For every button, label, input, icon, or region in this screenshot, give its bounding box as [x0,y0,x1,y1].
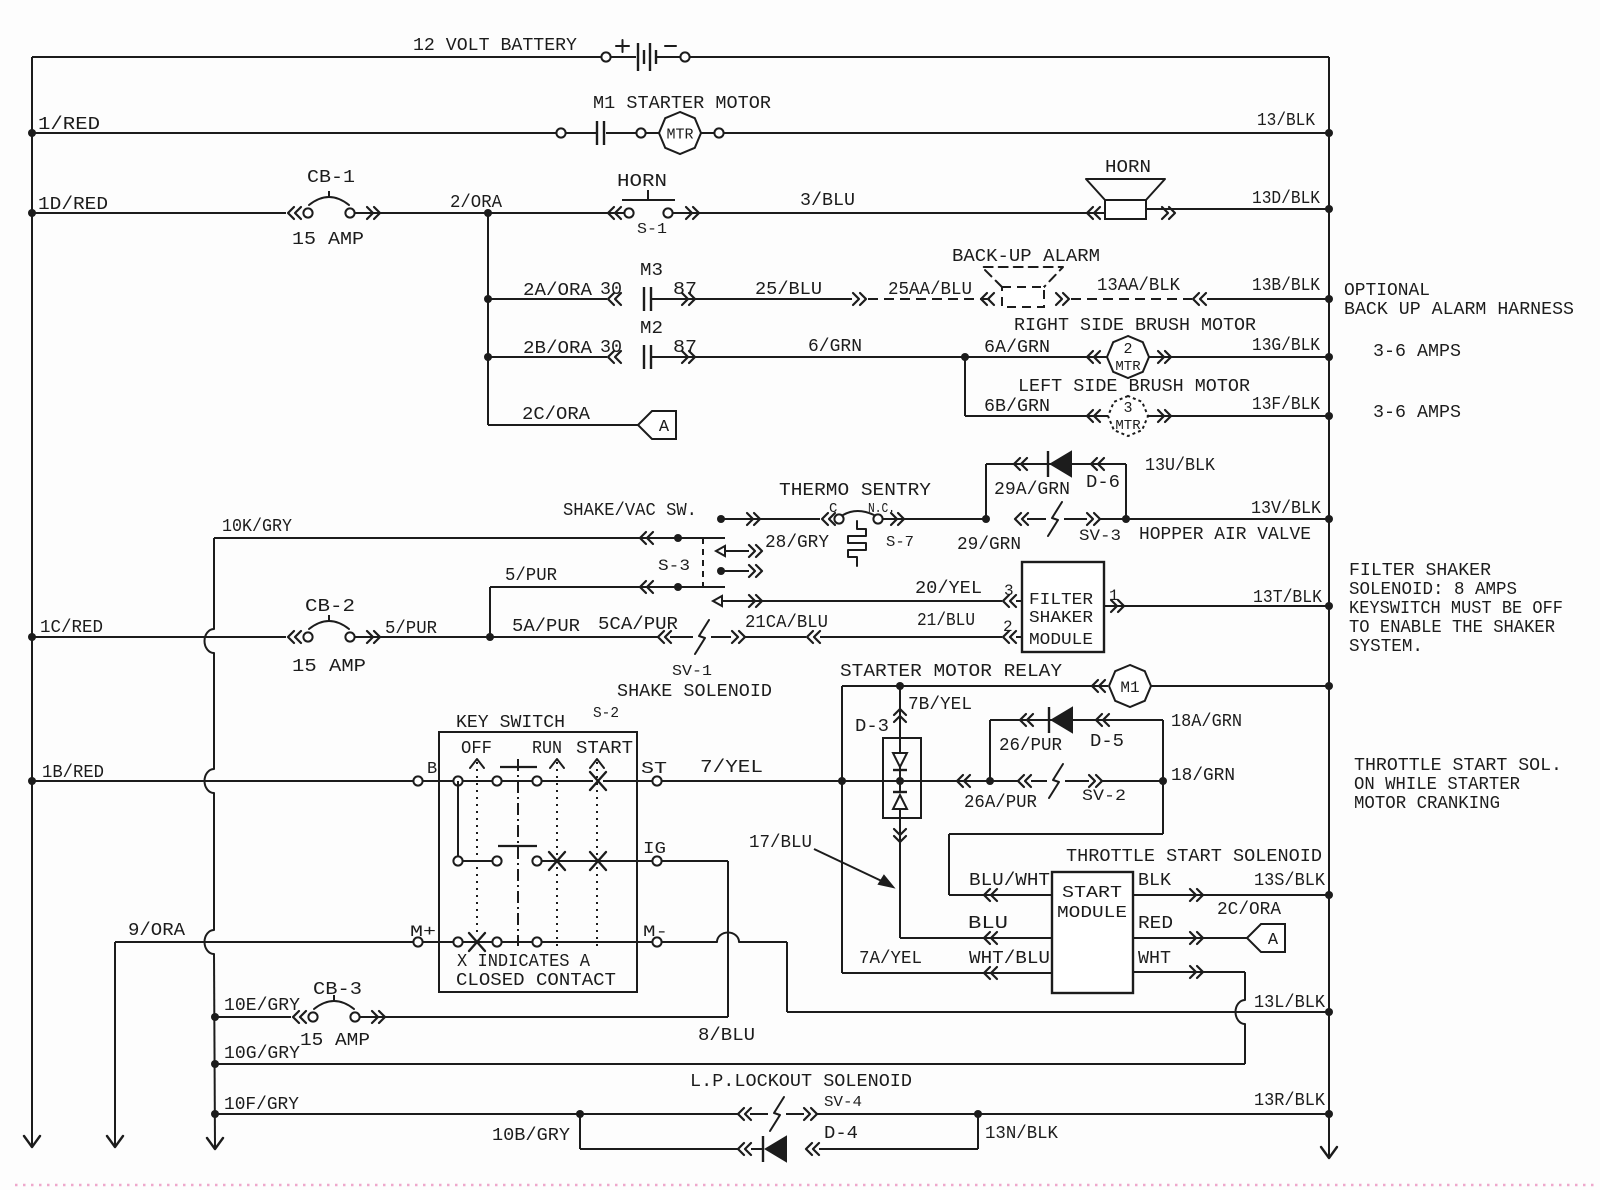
svg-text:WHT/BLU: WHT/BLU [969,949,1050,969]
svg-text:SV-1: SV-1 [672,663,712,680]
svg-text:1B/RED: 1B/RED [42,763,104,783]
top supply wire from battery [32,56,1329,58]
svg-text:D-6: D-6 [1086,473,1120,493]
label THERMO SENTRY [779,481,931,501]
wire 18/GRN to start module BLU/WHT [949,781,1163,901]
svg-text:SV-2: SV-2 [1082,787,1126,805]
svg-text:SOLENOID: 8 AMPS: SOLENOID: 8 AMPS [1349,580,1517,600]
svg-text:SV-3: SV-3 [1079,527,1121,545]
wire 2A/ORA [484,281,607,303]
wire RED to connector A [1133,900,1281,944]
wire 13T/BLK module pin 1 output [1104,587,1333,612]
svg-text:12 VOLT BATTERY: 12 VOLT BATTERY [413,36,577,56]
svg-text:MTR: MTR [1115,418,1141,434]
svg-text:M1 STARTER MOTOR: M1 STARTER MOTOR [593,94,771,114]
svg-text:2B/ORA: 2B/ORA [523,339,592,359]
wire starter motor relay coil [842,680,1108,692]
svg-text:2: 2 [1123,341,1132,358]
svg-text:10F/GRY: 10F/GRY [224,1095,299,1115]
svg-text:26A/PUR: 26A/PUR [964,793,1037,813]
label L.P.LOCKOUT SOLENOID [690,1072,912,1092]
wire 5/PUR to S-3 [490,566,725,639]
wire BLK 13S/BLK [1133,871,1333,901]
wire 13G/BLK [1149,336,1333,361]
svg-text:OFF: OFF [461,739,492,759]
hopper air valve solenoid SV-3 [1015,502,1311,545]
svg-text:13F/BLK: 13F/BLK [1252,395,1320,415]
svg-text:28/GRY: 28/GRY [765,533,829,553]
svg-text:25AA/BLU: 25AA/BLU [888,280,972,300]
back-up alarm speaker dashed [952,247,1100,307]
svg-text:10E/GRY: 10E/GRY [224,996,300,1016]
battery B1 12 volt [601,40,689,71]
shake solenoid SV-1 [617,620,772,702]
motor M3 left side brush dotted [1087,396,1171,436]
wire 1B/RED [28,763,413,785]
svg-text:13V/BLK: 13V/BLK [1251,499,1321,519]
circuit breaker CB-1 15 AMP [288,168,380,250]
svg-text:21/BLU: 21/BLU [917,611,975,631]
svg-text:THROTTLE START SOLENOID: THROTTLE START SOLENOID [1066,847,1322,867]
svg-text:M-: M- [643,923,668,941]
svg-text:SHAKE/VAC SW.: SHAKE/VAC SW. [563,501,697,521]
thermo sentry heater element [848,521,866,566]
diode D-6 bypass branch 29A/GRN [986,451,1215,523]
svg-text:RIGHT SIDE BRUSH MOTOR: RIGHT SIDE BRUSH MOTOR [1014,316,1256,336]
motor M1 starter [659,112,701,154]
left rail off-page arrow [24,1136,40,1147]
thermo sentry switch S-7 contacts C and N.C. [822,501,914,551]
label M1 STARTER MOTOR [593,94,771,114]
off-page connector A to 2C/ORA [1247,924,1285,952]
wire 28/GRY [717,513,829,553]
label THROTTLE START SOLENOID [1066,847,1322,867]
wire 10F/GRY [211,1095,584,1118]
svg-text:BLU: BLU [968,914,1008,934]
key switch S-2 enclosure [439,705,637,992]
9/ORA off-page arrow [107,1136,123,1147]
key switch OFF column dotted [470,759,484,932]
wire 1/RED [28,115,636,137]
key switch selector divider dash-dot [498,759,537,946]
svg-text:26/PUR: 26/PUR [999,736,1062,756]
svg-text:1/RED: 1/RED [38,115,100,135]
svg-text:MTR: MTR [666,126,693,143]
svg-text:OPTIONAL: OPTIONAL [1344,281,1430,301]
wire 13V/BLK [1126,499,1333,523]
wire M- to 13L/BLK [662,933,787,1013]
svg-text:29/GRN: 29/GRN [957,535,1021,555]
svg-text:ST: ST [641,760,667,779]
svg-text:13U/BLK: 13U/BLK [1145,456,1215,476]
svg-text:MOTOR CRANKING: MOTOR CRANKING [1354,794,1500,814]
svg-text:10K/GRY: 10K/GRY [222,517,292,537]
svg-text:13G/BLK: 13G/BLK [1252,336,1320,356]
filter shaker module U1 [1022,562,1104,652]
svg-text:TO ENABLE THE SHAKER: TO ENABLE THE SHAKER [1349,618,1555,638]
page separator dotted pink [15,1184,1595,1187]
svg-text:10G/GRY: 10G/GRY [224,1044,300,1064]
svg-text:1C/RED: 1C/RED [40,618,103,638]
svg-text:WHT: WHT [1138,949,1171,969]
wire to right rail [1151,682,1333,690]
svg-text:7A/YEL: 7A/YEL [859,949,922,969]
switch S-3 throw stub closed [717,565,762,577]
svg-text:C: C [829,501,837,517]
svg-text:3-6 AMPS: 3-6 AMPS [1373,342,1461,362]
wire 13D/BLK [1146,189,1333,213]
svg-text:2C/ORA: 2C/ORA [1217,900,1281,920]
svg-text:M2: M2 [640,319,663,339]
svg-text:START: START [576,739,633,759]
svg-text:BACK-UP ALARM: BACK-UP ALARM [952,247,1100,267]
wire 10E/GRY [211,996,300,1021]
motor M2 right side brush [1087,336,1171,378]
key switch position labels OFF RUN START [461,739,633,759]
starter solenoid contact [556,121,715,145]
svg-text:6A/GRN: 6A/GRN [984,338,1050,358]
svg-text:1D/RED: 1D/RED [38,195,108,215]
note 3-6 AMPS [1373,342,1461,362]
svg-text:CB-1: CB-1 [307,168,355,188]
svg-text:M1: M1 [1120,679,1139,697]
wire WHT [1133,949,1245,1064]
wire 9/ORA [115,921,413,942]
svg-text:S-2: S-2 [593,705,619,722]
svg-text:BACK UP ALARM HARNESS: BACK UP ALARM HARNESS [1344,300,1574,320]
key switch row B-ST contacts [413,760,667,790]
wire 13N/BLK [819,1114,1058,1149]
switch S-3 throw stub open [716,545,762,557]
svg-text:D-3: D-3 [855,717,889,737]
svg-text:13B/BLK: 13B/BLK [1252,276,1320,296]
wire 2/ORA [355,193,624,217]
right rail 13/BLK vertical [1328,57,1330,1156]
wire 13AA/BLK dashed [1056,276,1206,305]
wire 7B/YEL vertical [842,686,972,973]
wire 1D/RED [28,195,286,217]
svg-text:IG: IG [643,840,666,859]
svg-text:13R/BLK: 13R/BLK [1254,1091,1325,1111]
svg-text:3: 3 [1004,582,1014,600]
svg-text:S-3: S-3 [658,557,690,575]
wire 5A/PUR 5CA/PUR [490,615,678,637]
svg-text:13AA/BLK: 13AA/BLK [1097,276,1180,296]
svg-text:KEYSWITCH MUST BE OFF: KEYSWITCH MUST BE OFF [1349,599,1563,619]
svg-text:5/PUR: 5/PUR [505,566,557,586]
svg-text:3: 3 [1123,400,1132,417]
note THROTTLE START SOL. ON WHILE STARTER MOTOR CRANKING [1354,756,1562,814]
svg-text:A: A [659,418,670,437]
svg-text:START: START [1062,884,1122,903]
svg-text:ON WHILE STARTER: ON WHILE STARTER [1354,775,1520,795]
wire 2B/ORA [484,339,607,361]
svg-text:STARTER MOTOR RELAY: STARTER MOTOR RELAY [840,662,1062,682]
relay contact M3 terminals 30 87 [600,261,697,311]
off-page connector A [638,411,676,439]
wire 6/GRN [651,337,1108,361]
svg-text:S-1: S-1 [637,221,667,238]
label SHAKE/VAC SW. [563,501,697,521]
wire 10B/GRY [492,1114,738,1149]
wire 3/BLU [673,191,1104,213]
wire 5/PUR [355,619,494,641]
wire 13B/BLK [1207,276,1333,303]
svg-text:L.P.LOCKOUT SOLENOID: L.P.LOCKOUT SOLENOID [690,1072,912,1092]
switch S-3 gang dashed link [658,538,703,587]
wire 8/BLU [360,1017,755,1046]
svg-text:13D/BLK: 13D/BLK [1252,189,1320,209]
svg-text:1: 1 [1109,587,1119,605]
svg-text:D-5: D-5 [1090,732,1124,752]
svg-text:18A/GRN: 18A/GRN [1171,712,1242,732]
svg-text:3-6 AMPS: 3-6 AMPS [1373,403,1461,423]
svg-text:HOPPER AIR VALVE: HOPPER AIR VALVE [1139,525,1311,545]
diode D-5 branch 26/PUR [990,707,1242,781]
note 3-6 AMPS [1373,403,1461,423]
relay contact M2 terminals 30 87 [600,319,697,369]
svg-text:20/YEL: 20/YEL [915,579,982,599]
svg-text:2C/ORA: 2C/ORA [522,405,590,425]
svg-text:21CA/BLU: 21CA/BLU [745,613,828,633]
svg-text:10B/GRY: 10B/GRY [492,1126,570,1146]
10/GRY off-page arrow [207,1138,223,1149]
horn switch S-1 [608,172,699,238]
suppressor D-3 [855,717,921,818]
wire 21/BLU to module pin 2 [820,611,1022,643]
svg-text:D-4: D-4 [824,1124,858,1144]
svg-text:HORN: HORN [617,172,667,192]
wire 10G/GRY [211,1044,1245,1068]
key switch row IG contacts [453,840,666,870]
svg-text:17/BLU: 17/BLU [749,833,812,853]
svg-text:5/PUR: 5/PUR [385,619,437,639]
key switch B bus vertical [457,781,459,861]
svg-text:6/GRN: 6/GRN [808,337,862,357]
svg-text:5CA/PUR: 5CA/PUR [598,615,678,635]
svg-text:KEY SWITCH: KEY SWITCH [456,713,565,733]
svg-text:8/BLU: 8/BLU [698,1026,755,1046]
wire 7/YEL [662,758,846,785]
svg-text:SV-4: SV-4 [824,1094,862,1111]
svg-text:CLOSED CONTACT: CLOSED CONTACT [456,971,616,991]
wire 21CA/BLU [745,613,828,643]
wire 26A/PUR relay line [842,764,1235,813]
svg-text:MTR: MTR [1115,359,1141,375]
svg-text:13S/BLK: 13S/BLK [1254,871,1325,891]
svg-text:FILTER SHAKER: FILTER SHAKER [1349,561,1491,581]
svg-text:RUN: RUN [532,739,562,759]
key switch row M contacts [410,923,668,951]
key switch RUN column dotted [550,759,564,948]
svg-text:N.C.: N.C. [868,501,895,517]
svg-text:SHAKER: SHAKER [1029,609,1093,628]
svg-text:THERMO SENTRY: THERMO SENTRY [779,481,931,501]
wire 20/YEL to module pin 3 [713,579,1022,607]
svg-text:29A/GRN: 29A/GRN [994,480,1070,500]
svg-text:15 AMP: 15 AMP [292,657,366,677]
svg-text:25/BLU: 25/BLU [755,280,822,300]
svg-text:A: A [1268,931,1279,950]
wire bus 2/ORA branch vertical [487,213,489,425]
svg-text:M+: M+ [410,923,436,941]
svg-text:BLK: BLK [1138,871,1171,891]
start module U2 [1052,872,1133,993]
svg-text:M3: M3 [640,261,663,281]
label STARTER MOTOR RELAY [840,662,1062,682]
wire IG to 8/BLU [662,861,728,1017]
wire 17/BLU D-3 to start module BLU [894,818,1052,944]
wire 2C/ORA [488,405,638,425]
diode D-4 [738,1124,858,1162]
wire 13L/BLK [787,993,1333,1016]
label 17/BLU with arrow [749,833,893,887]
svg-text:3/BLU: 3/BLU [800,191,855,211]
svg-text:15 AMP: 15 AMP [292,230,364,250]
svg-text:BLU/WHT: BLU/WHT [969,871,1050,891]
svg-text:HORN: HORN [1105,158,1151,178]
svg-text:MODULE: MODULE [1057,904,1127,923]
svg-text:CB-2: CB-2 [305,597,355,617]
svg-text:SHAKE SOLENOID: SHAKE SOLENOID [617,682,772,702]
svg-text:13N/BLK: 13N/BLK [985,1124,1058,1144]
svg-text:6B/GRN: 6B/GRN [984,397,1050,417]
wire 13R/BLK [817,1091,1333,1118]
svg-text:13/BLK: 13/BLK [1257,111,1315,131]
note X INDICATES A CLOSED CONTACT [456,952,616,991]
svg-text:2/ORA: 2/ORA [450,193,502,213]
svg-text:RED: RED [1138,914,1173,934]
svg-text:7B/YEL: 7B/YEL [908,695,972,715]
L.P. lockout solenoid SV-4 [580,1094,862,1131]
relay coil M1 octagon [1109,665,1151,707]
label LEFT SIDE BRUSH MOTOR [1018,377,1250,397]
svg-text:X INDICATES A: X INDICATES A [457,952,590,972]
svg-text:13L/BLK: 13L/BLK [1254,993,1325,1013]
svg-text:S-7: S-7 [886,534,914,551]
svg-text:15 AMP: 15 AMP [300,1031,370,1051]
svg-text:THROTTLE START SOL.: THROTTLE START SOL. [1354,756,1562,776]
svg-text:2: 2 [1003,618,1013,636]
svg-text:7/YEL: 7/YEL [700,758,763,778]
wire 10K/GRY [214,517,725,544]
svg-text:5A/PUR: 5A/PUR [512,617,580,637]
left rail 1/RED vertical [31,57,33,1145]
wire 25AA/BLU dashed [868,280,994,305]
svg-text:18/GRN: 18/GRN [1171,766,1235,786]
label 12 VOLT BATTERY [413,36,577,56]
right rail off-page arrow [1321,1147,1337,1158]
wire 13/BLK [714,111,1333,138]
svg-text:FILTER: FILTER [1029,591,1093,610]
wire 6B/GRN [965,357,1109,417]
svg-text:SYSTEM.: SYSTEM. [1349,637,1423,657]
wire 25/BLU [651,280,866,305]
wire 1C/RED [28,618,286,641]
10/GRY off-page vertical with hops [205,538,216,1147]
svg-text:LEFT SIDE BRUSH MOTOR: LEFT SIDE BRUSH MOTOR [1018,377,1250,397]
note FILTER SHAKER SOLENOID [1349,561,1563,657]
horn speaker [1086,158,1175,219]
note OPTIONAL BACK UP ALARM HARNESS [1344,281,1574,320]
circuit breaker CB-3 15 AMP [293,980,385,1051]
key switch START column dotted [590,759,604,948]
label RIGHT SIDE BRUSH MOTOR [1014,316,1256,336]
circuit breaker CB-2 15 AMP [288,597,380,677]
svg-text:9/ORA: 9/ORA [128,921,185,941]
svg-text:2A/ORA: 2A/ORA [523,281,592,301]
9/ORA off-page vertical [114,942,116,1145]
svg-text:13T/BLK: 13T/BLK [1253,588,1322,608]
svg-text:B: B [427,760,437,779]
wire 7A/YEL to start module WHT/BLU [842,949,1052,979]
svg-text:MODULE: MODULE [1029,631,1093,650]
svg-text:CB-3: CB-3 [313,980,362,1000]
wire 29/GRN [882,515,1021,555]
wire 13F/BLK [1148,395,1333,420]
